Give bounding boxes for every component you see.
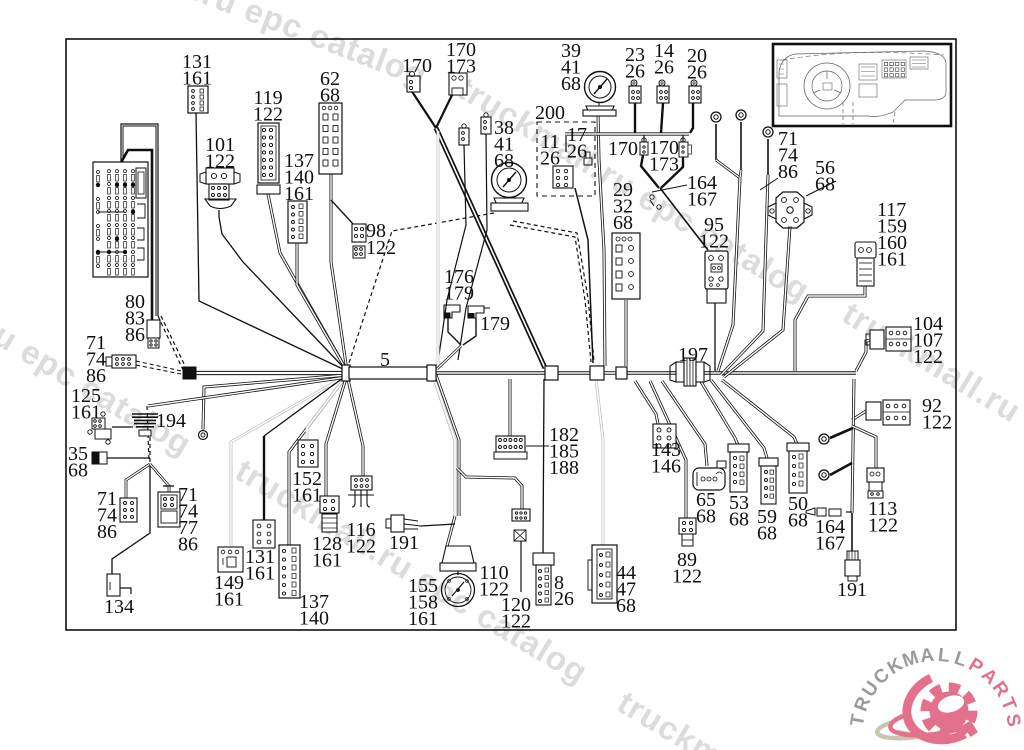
svg-text:179: 179 [480,313,510,335]
svg-text:191: 191 [837,579,867,601]
svg-text:717486: 717486 [778,128,798,183]
svg-text:717486: 717486 [86,332,106,387]
svg-text:119122: 119122 [253,87,283,126]
svg-text:120122: 120122 [501,594,531,633]
svg-text:5068: 5068 [788,493,808,532]
svg-text:2326: 2326 [625,44,645,83]
svg-text:170173: 170173 [649,137,679,176]
svg-text:152161: 152161 [292,468,322,507]
svg-text:6568: 6568 [696,489,716,528]
svg-text:170173: 170173 [446,39,476,78]
svg-text:3568: 3568 [68,443,88,482]
svg-text:131161: 131161 [245,546,275,585]
svg-text:A: A [919,645,935,667]
svg-text:113122: 113122 [868,498,898,537]
svg-text:164167: 164167 [815,516,845,555]
svg-text:134: 134 [104,596,134,618]
svg-text:200: 200 [535,102,565,124]
svg-text:717486: 717486 [97,488,117,543]
svg-text:71747786: 71747786 [178,484,198,556]
svg-text:155158161: 155158161 [408,575,438,630]
svg-text:170: 170 [402,55,432,77]
svg-text:116122: 116122 [346,519,376,558]
svg-text:384168: 384168 [494,117,514,172]
svg-text:182185188: 182185188 [549,424,579,479]
svg-text:26: 26 [554,588,574,610]
svg-text:170: 170 [608,138,638,160]
svg-text:191: 191 [389,532,419,554]
svg-text:5: 5 [380,349,390,371]
svg-text:149161: 149161 [214,572,244,611]
svg-text:1426: 1426 [654,40,674,79]
svg-text:101122: 101122 [205,134,235,173]
svg-text:1126: 1126 [540,131,560,170]
svg-text:5368: 5368 [729,492,749,531]
svg-text:137140: 137140 [299,591,329,630]
svg-text:122: 122 [366,237,396,259]
svg-text:197: 197 [678,344,708,366]
svg-text:104107122: 104107122 [913,313,943,368]
svg-text:808386: 808386 [125,291,145,346]
svg-text:117159160161: 117159160161 [877,199,907,271]
svg-text:5668: 5668 [815,157,835,196]
svg-text:293268: 293268 [613,179,633,234]
svg-text:125161: 125161 [71,385,101,424]
svg-text:394168: 394168 [561,40,581,95]
svg-text:444768: 444768 [616,562,636,617]
svg-text:5968: 5968 [757,506,777,545]
svg-text:6268: 6268 [320,68,340,107]
svg-text:1726: 1726 [567,124,587,163]
svg-text:2026: 2026 [687,45,707,84]
svg-text:176179: 176179 [444,266,474,305]
svg-text:128161: 128161 [312,533,342,572]
svg-text:137140161: 137140161 [284,150,314,205]
svg-text:194: 194 [156,410,186,432]
svg-text:143146: 143146 [651,439,681,478]
svg-text:164167: 164167 [687,172,717,211]
svg-text:131161: 131161 [182,51,212,90]
